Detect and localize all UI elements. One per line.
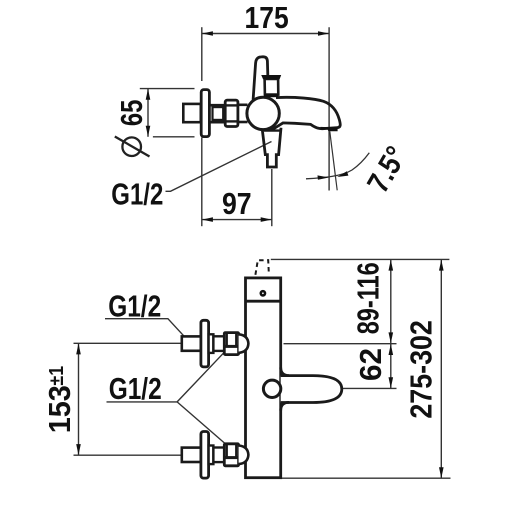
cartridge base band (black) xyxy=(264,94,279,97)
svg-text:62: 62 xyxy=(354,348,388,381)
arrow 175 right xyxy=(318,31,329,36)
collar top xyxy=(209,334,214,353)
svg-text:G1/2: G1/2 xyxy=(111,178,163,212)
arrow 175 left xyxy=(202,31,213,36)
diverter circle (front view) xyxy=(263,380,280,397)
7.5 degree arc xyxy=(306,153,369,179)
wall flange (side view) xyxy=(201,90,209,137)
arrow 97 left xyxy=(202,217,213,222)
nut top xyxy=(224,333,238,355)
tube to body xyxy=(238,105,248,122)
arrow 275-302 down xyxy=(439,467,444,478)
D-cap top xyxy=(239,334,249,353)
wall supply pipe (side view) xyxy=(183,104,201,122)
svg-text:G1/2: G1/2 xyxy=(109,372,162,406)
arrow 97 right xyxy=(261,217,272,222)
extension line y343 left xyxy=(74,342,182,344)
supply pipe top xyxy=(182,336,201,350)
svg-text:89-116: 89-116 xyxy=(351,262,385,334)
svg-text:175: 175 xyxy=(245,1,289,35)
top reference line xyxy=(271,258,450,260)
extension line left for 97 xyxy=(201,138,203,227)
D-cap bottom xyxy=(239,446,249,465)
wall flange bottom xyxy=(201,432,209,479)
spout tongue outline xyxy=(281,376,342,403)
arrow 65 up xyxy=(146,89,151,100)
spout aerator outlet (black) xyxy=(321,127,338,131)
dimension line 62 xyxy=(390,344,392,389)
tailpiece outer tube xyxy=(209,105,225,122)
spout (side view) outline xyxy=(271,97,340,130)
spout axis line xyxy=(343,387,397,389)
wall flange top xyxy=(201,320,209,367)
lever handle (side view) xyxy=(253,57,268,100)
extension line bottom for 65 xyxy=(153,136,195,138)
leader G1/2 middle (V) xyxy=(107,353,224,402)
spout tongue (front view) fill xyxy=(281,376,342,403)
body circle (side view) xyxy=(247,97,279,129)
arrow 275-302 up xyxy=(439,260,444,271)
svg-text:±1: ±1 xyxy=(46,366,68,386)
body (front view) xyxy=(246,278,281,478)
arrow 89-116 up xyxy=(389,260,394,271)
tailpiece inner step xyxy=(213,107,224,120)
leader line G1/2 (side view) xyxy=(166,142,272,192)
collar bottom xyxy=(209,446,214,465)
extension line top for 65 xyxy=(140,88,195,90)
screw xyxy=(260,290,267,297)
dimension line 175 xyxy=(202,33,329,35)
bottom reference line xyxy=(282,477,451,479)
extension line right for 97 (diverter axis) xyxy=(271,169,273,226)
spout tongue body fillets xyxy=(281,368,289,376)
dashed lever (front view) xyxy=(255,260,269,275)
dimension line 275-302 xyxy=(440,259,442,478)
extension line y343 right (inlet axis) xyxy=(284,343,397,345)
union nut (side view) xyxy=(225,100,238,126)
body cap separation line xyxy=(246,300,281,303)
arrow 89-116 down xyxy=(389,332,394,343)
tube bottom xyxy=(213,448,224,463)
extension line left (wall plane) for 175 xyxy=(201,27,203,81)
leader G1/2 upper xyxy=(105,319,191,344)
diameter symbol xyxy=(115,137,150,157)
tube top xyxy=(213,336,224,351)
nut bottom xyxy=(224,444,238,466)
svg-text:275-302: 275-302 xyxy=(405,320,439,419)
arrow 7.5 arc left (points right at vertical line) xyxy=(318,175,329,179)
extension line right (spout tip axis / water stream) xyxy=(328,27,330,190)
dimension line 153 xyxy=(78,343,80,455)
nut chamfer lines xyxy=(225,105,238,121)
cartridge cap bar (black) xyxy=(261,75,281,79)
svg-text:97: 97 xyxy=(222,187,252,221)
cartridge escutcheon trapezoid xyxy=(265,79,279,95)
svg-text:65: 65 xyxy=(115,100,149,127)
arrow 153 down xyxy=(76,444,81,455)
arrow 62 down xyxy=(389,377,394,388)
svg-text:G1/2: G1/2 xyxy=(108,289,161,323)
svg-text:153: 153 xyxy=(43,385,77,433)
arrow 62 up xyxy=(389,344,394,355)
dimension line 97 xyxy=(202,219,272,221)
arrow 7.5 arc right (points left at tilted line) xyxy=(337,171,348,177)
arrow 65 down xyxy=(146,126,151,137)
arrow 153 up xyxy=(76,343,81,354)
diverter top edge xyxy=(264,129,281,131)
7.5 degree tilted stream line xyxy=(330,132,337,191)
supply pipe bottom xyxy=(182,448,201,462)
extension line y455 left xyxy=(74,454,182,456)
dimension line 65 xyxy=(147,89,149,137)
dimension line 89-116 xyxy=(390,259,392,343)
diverter lower (side view) xyxy=(262,128,281,167)
